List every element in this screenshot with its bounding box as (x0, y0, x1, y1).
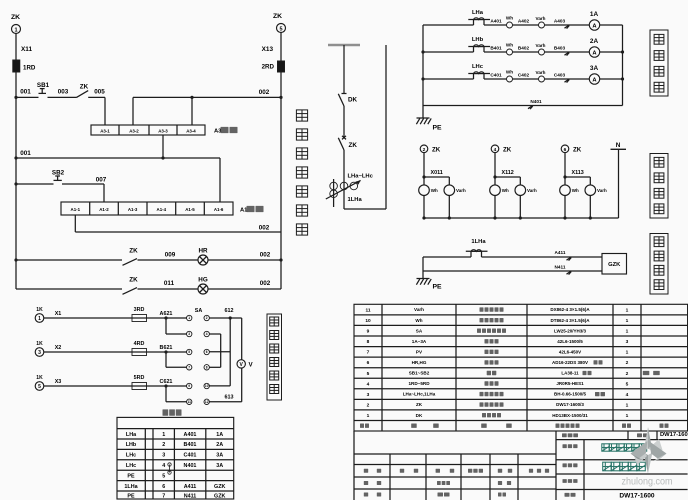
svg-text:A621: A621 (160, 311, 173, 317)
svg-text:SB1~SB2: SB1~SB2 (409, 371, 430, 376)
SA contact circles 1-2 (187, 315, 192, 320)
terminal table title (CJK) (163, 409, 169, 415)
svg-text:1RD: 1RD (23, 65, 36, 72)
svg-text:SB2: SB2 (52, 170, 65, 177)
terminal plug circle 6 (ZK aux) (561, 145, 569, 153)
svg-text:ZK: ZK (80, 83, 89, 90)
current transformer LHc (473, 74, 475, 80)
wire N401 (423, 105, 623, 107)
svg-text:Wh: Wh (572, 188, 579, 193)
wire 612 vertical (229, 318, 231, 386)
BOM table frame (354, 304, 688, 431)
junction dots right bus (621, 50, 624, 53)
svg-text:1: 1 (188, 316, 190, 320)
fuse 4RD (132, 349, 147, 356)
fuse 5RD (132, 383, 147, 390)
meter Wh circle (490, 185, 501, 196)
SA contact circles 5-6 (187, 349, 192, 354)
svg-text:DW17-1600: DW17-1600 (660, 432, 688, 438)
bottom bus of voltage circuit (424, 217, 619, 219)
svg-text:A411: A411 (555, 250, 566, 255)
contact ZK HR row (123, 259, 138, 266)
svg-text:PE: PE (127, 473, 135, 479)
drawing title (green): incoming power circuit - 6 CJK glyphs (602, 444, 609, 451)
svg-text:C401: C401 (184, 453, 197, 459)
wire 007 segment (62, 183, 104, 185)
fuse 1RD (filled) (13, 60, 20, 72)
current transformer LHa (473, 20, 475, 26)
wire current row through meters (484, 51, 589, 53)
svg-text:3A: 3A (216, 453, 223, 459)
branch wire to Varh (565, 176, 590, 178)
junction dot HR right bus (279, 258, 282, 261)
svg-text:HD13BX-1500/31: HD13BX-1500/31 (552, 413, 588, 418)
junction dot branch (164, 350, 167, 353)
svg-text:1K: 1K (36, 375, 43, 381)
svg-text:4RD: 4RD (134, 341, 145, 347)
svg-text:LHc: LHc (126, 453, 136, 459)
svg-text:PE: PE (433, 284, 443, 291)
BOM header row (CJK) (360, 424, 364, 428)
svg-text:DK: DK (416, 413, 423, 418)
svg-text:1: 1 (367, 413, 370, 419)
terminal plug circle 5 (ZK aux) at X13 top (277, 24, 286, 33)
wire contact4 branch (209, 333, 220, 335)
svg-text:A401: A401 (184, 432, 197, 438)
svg-text:LHc: LHc (472, 64, 484, 70)
wires meters to bottom bus (423, 196, 425, 219)
title block left texts row3 (CJK) (364, 493, 368, 497)
junction dots bottom bus (493, 216, 496, 219)
SA contact circles 7-8 (187, 365, 192, 370)
svg-text:3: 3 (367, 392, 370, 398)
junction dots bottom bus (422, 216, 425, 219)
svg-text:N: N (616, 142, 621, 149)
title block field label row5 (CJK) (565, 493, 570, 497)
title block field: drawing no label (CJK) (637, 433, 642, 437)
ammeter 2A (589, 47, 599, 57)
contact ZK HG row (123, 288, 138, 295)
meter terminal Wh row 2A (507, 49, 513, 55)
svg-text:1A: 1A (216, 432, 223, 438)
svg-text:1: 1 (38, 316, 41, 322)
junction dots bottom bus (563, 216, 566, 219)
wire mid vertical 4-8 (220, 334, 222, 367)
wire HG row middle (138, 288, 199, 290)
box label: voltage changeover circuit (267, 314, 282, 400)
svg-text:DT862-4 3×1.5(6)A: DT862-4 3×1.5(6)A (551, 318, 591, 323)
svg-text:1: 1 (626, 350, 629, 356)
svg-text:ZK: ZK (129, 277, 138, 284)
wire right vertical to voltmeter (241, 318, 243, 360)
SA contact circles 3-4 (187, 331, 192, 336)
svg-text:3A: 3A (216, 463, 223, 469)
svg-text:Varh: Varh (597, 188, 607, 193)
svg-text:2: 2 (162, 442, 165, 448)
svg-text:A3-4: A3-4 (186, 129, 196, 134)
svg-text:B621: B621 (160, 345, 173, 351)
current row 3A: wire left (423, 78, 474, 80)
svg-text:7: 7 (367, 350, 370, 356)
svg-text:HG: HG (198, 277, 208, 284)
terminal plug circle 4 (ZK aux) (491, 145, 499, 153)
svg-text:Varh: Varh (536, 43, 546, 48)
svg-text:A1-1: A1-1 (71, 207, 81, 212)
svg-text:2: 2 (626, 360, 629, 366)
wire row (44, 317, 187, 319)
wire SB2 row left (16, 183, 54, 185)
svg-text:LHb: LHb (126, 442, 137, 448)
wire A1-1 down to 002 line (74, 215, 76, 232)
fuse 2RD (filled) (278, 61, 285, 72)
svg-text:6: 6 (367, 360, 370, 366)
wire contact8 branch (209, 366, 220, 368)
current transformer LHb (473, 47, 475, 53)
wire contact2 to right vertical (209, 317, 241, 319)
left bus of current circuit (422, 25, 424, 118)
svg-text:Varh: Varh (536, 16, 546, 21)
svg-text:C403: C403 (554, 72, 566, 77)
vertical label: breaker control circuit (7 CJK glyphs) (296, 110, 307, 121)
wire contact10 to 612 (209, 385, 230, 387)
svg-text:5: 5 (38, 384, 41, 390)
title block field label row4 (CJK) (563, 479, 567, 483)
arrow mark (565, 52, 570, 55)
svg-text:2: 2 (626, 371, 629, 377)
wire loop right vertical (385, 45, 387, 209)
junction dot branch (563, 175, 566, 178)
svg-text:1: 1 (626, 413, 629, 419)
svg-text:11: 11 (188, 400, 192, 404)
branch wire down to lower contact row (165, 318, 167, 334)
wire ammeter to right bus (600, 51, 623, 53)
svg-text:3: 3 (38, 350, 41, 356)
arrow on A411 (567, 257, 572, 260)
ammeter 3A (589, 74, 599, 84)
fuse 3RD (132, 315, 147, 322)
svg-text:2A: 2A (216, 442, 223, 448)
svg-text:3: 3 (188, 332, 190, 336)
svg-text:LHa: LHa (472, 10, 484, 16)
junction dots 001 line (14, 156, 17, 159)
svg-text:003: 003 (58, 89, 69, 96)
arrow mark (565, 25, 570, 28)
svg-text:X2: X2 (55, 345, 62, 351)
terminal plug circle 1 (ZK aux) at X11 top (12, 25, 21, 34)
title block field: project no (CJK) (562, 433, 567, 437)
svg-text:HR,HG: HR,HG (412, 360, 427, 365)
left bus vertical of control circuit (15, 97, 17, 289)
svg-text:1: 1 (162, 432, 165, 438)
svg-text:001: 001 (20, 150, 31, 157)
svg-text:ZK: ZK (349, 142, 358, 149)
svg-text:DK: DK (348, 96, 358, 103)
junction dot branch (493, 175, 496, 178)
svg-text:A411: A411 (184, 484, 197, 490)
svg-text:7: 7 (188, 366, 190, 370)
svg-text:LA38-11: LA38-11 (561, 371, 579, 376)
svg-text:SA: SA (416, 328, 423, 333)
svg-text:Wh: Wh (502, 188, 509, 193)
busbar (gray) (328, 44, 360, 47)
svg-text:3RD: 3RD (134, 307, 145, 313)
svg-text:PE: PE (433, 125, 443, 132)
indicator lamp HR (198, 255, 208, 265)
wire HG row right (208, 288, 281, 290)
svg-text:C401: C401 (490, 72, 502, 77)
wire HR row left (16, 259, 122, 261)
junction dot HR row left (14, 258, 17, 261)
svg-text:SA: SA (195, 308, 203, 314)
svg-text:6: 6 (162, 484, 165, 490)
svg-text:612: 612 (225, 308, 234, 314)
box label: current circuit (650, 30, 668, 96)
svg-text:B401: B401 (490, 45, 502, 50)
svg-text:PV: PV (416, 349, 423, 354)
svg-text:Wh: Wh (506, 43, 513, 48)
svg-text:X011: X011 (431, 170, 443, 176)
svg-text:A403: A403 (554, 18, 566, 23)
svg-text:C402: C402 (518, 72, 530, 77)
pushbutton SB2 (54, 179, 62, 181)
disconnector DK (342, 93, 347, 95)
svg-text:2: 2 (206, 316, 208, 320)
terminal table frame (117, 417, 234, 499)
svg-text:zhulong.com: zhulong.com (622, 476, 673, 487)
svg-text:A3-2: A3-2 (129, 129, 139, 134)
svg-text:42L6-1500/5: 42L6-1500/5 (557, 339, 583, 344)
wire X11 vertical upper (15, 34, 17, 61)
svg-text:DX862-4 3×1.5(6)A: DX862-4 3×1.5(6)A (550, 307, 590, 312)
svg-text:Wh: Wh (415, 318, 422, 323)
contact ZK (row 001) (77, 91, 89, 98)
wire 002 top horizontal (133, 96, 281, 98)
svg-text:GZK: GZK (214, 484, 225, 490)
svg-text:HR: HR (198, 248, 208, 255)
svg-text:ZK: ZK (416, 402, 423, 407)
right bus of current circuit (622, 25, 624, 106)
svg-text:007: 007 (96, 177, 107, 184)
svg-text:002: 002 (260, 280, 271, 287)
svg-text:X13: X13 (262, 46, 274, 53)
ground PE (current circuit) (417, 117, 430, 119)
terminal plug circle 3 (1K) (35, 348, 44, 357)
svg-text:4: 4 (494, 147, 497, 153)
SA contact circles 11-12 (187, 399, 192, 404)
meter Varh circle (444, 185, 455, 196)
wire X13 vertical upper (280, 33, 282, 62)
svg-text:LHb: LHb (472, 37, 484, 43)
svg-text:613: 613 (225, 394, 234, 400)
terminal plug circle 1 (1K) (35, 314, 44, 323)
wire stub A3-2 up (132, 97, 134, 125)
wire plug down (423, 153, 425, 177)
svg-text:10: 10 (205, 384, 209, 388)
svg-text:1: 1 (626, 307, 629, 313)
svg-text:5: 5 (162, 473, 165, 479)
box label: current signal (650, 234, 668, 295)
svg-text:1LHa: 1LHa (348, 197, 363, 203)
svg-text:DW17-1600/3: DW17-1600/3 (556, 402, 584, 407)
wire 001 to SB1 (16, 96, 39, 98)
svg-text:Varh: Varh (456, 188, 466, 193)
current row 1A: wire left (423, 24, 474, 26)
junction dot branch (422, 175, 425, 178)
svg-text:5: 5 (279, 26, 282, 32)
wire 007 down to A1-2 (103, 184, 105, 202)
watermark logo (gray origami star) (631, 427, 667, 474)
svg-text:A1-3: A1-3 (128, 207, 138, 212)
svg-text:C621: C621 (160, 379, 173, 385)
svg-text:9: 9 (188, 384, 190, 388)
meter terminal Varh row 2A (539, 49, 545, 55)
svg-text:X3: X3 (55, 379, 62, 385)
svg-text:X113: X113 (572, 170, 584, 176)
svg-text:AD16-22DS 380V: AD16-22DS 380V (552, 360, 588, 365)
junction dot 002/A3-4 stub (190, 96, 193, 99)
svg-text:5: 5 (188, 350, 190, 354)
junction dot SB2 row (14, 182, 17, 185)
junction dot node 001 (14, 96, 17, 99)
meter terminal Wh row 3A (507, 76, 513, 82)
title block field label row2 (CJK) (563, 444, 567, 448)
svg-text:SB1: SB1 (37, 82, 50, 89)
product name (green): LV distribution panel - 5 CJK glyphs (603, 462, 612, 471)
wire fuse to node 001 (15, 72, 17, 97)
meter Varh circle (515, 185, 526, 196)
svg-text:LHa~LHc: LHa~LHc (348, 174, 374, 180)
junction dot 612 top (229, 316, 232, 319)
svg-text:1: 1 (626, 318, 629, 324)
wire voltmeter to 613 (241, 368, 243, 402)
arrow on N401 (528, 106, 533, 109)
title block field label row3 (CJK) (563, 463, 567, 467)
wire to Wh meter (564, 177, 566, 185)
wire current row through meters (484, 78, 589, 80)
svg-text:Wh: Wh (506, 16, 513, 21)
svg-text:Varh: Varh (414, 307, 424, 312)
branch wire to Varh (495, 176, 520, 178)
ammeter 1A (589, 20, 599, 30)
svg-text:Varh: Varh (536, 70, 546, 75)
N terminal bar (611, 148, 627, 150)
svg-text:1: 1 (626, 329, 629, 335)
svg-text:BH-0.66-1500/5: BH-0.66-1500/5 (554, 392, 587, 397)
svg-text:LHa~LHc,1LHa: LHa~LHc,1LHa (403, 392, 436, 397)
terminal strip A1 box (61, 202, 233, 215)
junction dot branch (164, 316, 167, 319)
svg-text:4: 4 (626, 392, 629, 398)
arrow mark (565, 79, 570, 82)
right bus vertical of control circuit (280, 72, 282, 289)
svg-text:N401: N401 (184, 463, 197, 469)
svg-text:A3-1: A3-1 (100, 129, 110, 134)
jumper link rows 4-5 (168, 463, 171, 466)
current row 2A: wire left (423, 51, 474, 53)
meter terminal Varh row 1A (539, 22, 545, 28)
svg-text:X11: X11 (21, 46, 32, 53)
wire HG row left (16, 288, 122, 290)
svg-text:ZK: ZK (11, 14, 20, 21)
title block left texts row2 (CJK) (364, 481, 368, 485)
svg-text:1K: 1K (36, 341, 43, 347)
svg-text:Wh: Wh (431, 188, 438, 193)
svg-text:6: 6 (564, 147, 567, 153)
svg-text:011: 011 (164, 280, 175, 287)
junction dot right bus at 002 top (279, 96, 282, 99)
title block left grid (353, 431, 355, 500)
svg-text:A1-2: A1-2 (99, 207, 109, 212)
svg-text:GZK: GZK (214, 493, 225, 499)
svg-text:5: 5 (367, 371, 370, 377)
svg-text:4: 4 (162, 463, 165, 469)
junction dots left bus (421, 50, 424, 53)
svg-text:B403: B403 (554, 45, 566, 50)
svg-text:4: 4 (367, 381, 370, 387)
svg-text:2A: 2A (590, 38, 599, 45)
svg-text:005: 005 (94, 89, 105, 96)
svg-text:1: 1 (14, 27, 17, 33)
svg-text:5RD: 5RD (134, 375, 145, 381)
svg-text:1RD~5RD: 1RD~5RD (408, 381, 430, 386)
relay box GZK (602, 254, 627, 275)
current transformer 1LHa (470, 251, 472, 257)
svg-text:3: 3 (162, 453, 165, 459)
svg-text:42L6-450V: 42L6-450V (559, 349, 581, 354)
meter terminal Wh row 1A (507, 22, 513, 28)
svg-text:ZK: ZK (129, 248, 138, 255)
terminal strip A3 box (91, 125, 205, 135)
svg-text:LHc: LHc (126, 463, 136, 469)
wire HR row middle (138, 259, 199, 261)
title block right grid (556, 439, 688, 441)
svg-text:A1-6: A1-6 (214, 207, 224, 212)
svg-text:A401: A401 (490, 18, 502, 23)
wire current row through meters (484, 24, 589, 26)
svg-text:X112: X112 (502, 170, 514, 176)
svg-text:6: 6 (206, 350, 208, 354)
wire plug down (564, 153, 566, 177)
svg-text:X1: X1 (55, 311, 62, 317)
wire 003 segment (48, 96, 77, 98)
svg-text:001: 001 (20, 89, 31, 96)
wire loop bottom (344, 208, 386, 210)
svg-text:ZK: ZK (432, 146, 441, 153)
svg-text:009: 009 (165, 252, 176, 259)
voltmeter PV (237, 360, 245, 368)
svg-text:A3-3: A3-3 (158, 129, 168, 134)
wire HR row right (208, 259, 281, 261)
svg-text:LW25-20/YH3/3: LW25-20/YH3/3 (554, 328, 587, 333)
wire DK to ZK (343, 106, 345, 138)
svg-text:8: 8 (367, 339, 370, 345)
wire row (44, 385, 187, 387)
wire A411 left (423, 256, 471, 258)
wire N down to bus (618, 149, 620, 218)
wires meters to bottom bus (494, 196, 496, 219)
svg-text:PE: PE (127, 493, 135, 499)
svg-text:12: 12 (205, 400, 209, 404)
branch wire to Varh (424, 176, 449, 178)
wire plug down (494, 153, 496, 177)
box label: voltage circuit (650, 154, 668, 219)
ground PE (signal circuit) (417, 278, 430, 280)
wires meters to bottom bus (564, 196, 566, 219)
wire A411 right to GZK (482, 256, 603, 258)
wire ammeter to right bus (600, 24, 623, 26)
svg-text:DW17-1600: DW17-1600 (619, 493, 655, 500)
junction dot branch (164, 384, 167, 387)
